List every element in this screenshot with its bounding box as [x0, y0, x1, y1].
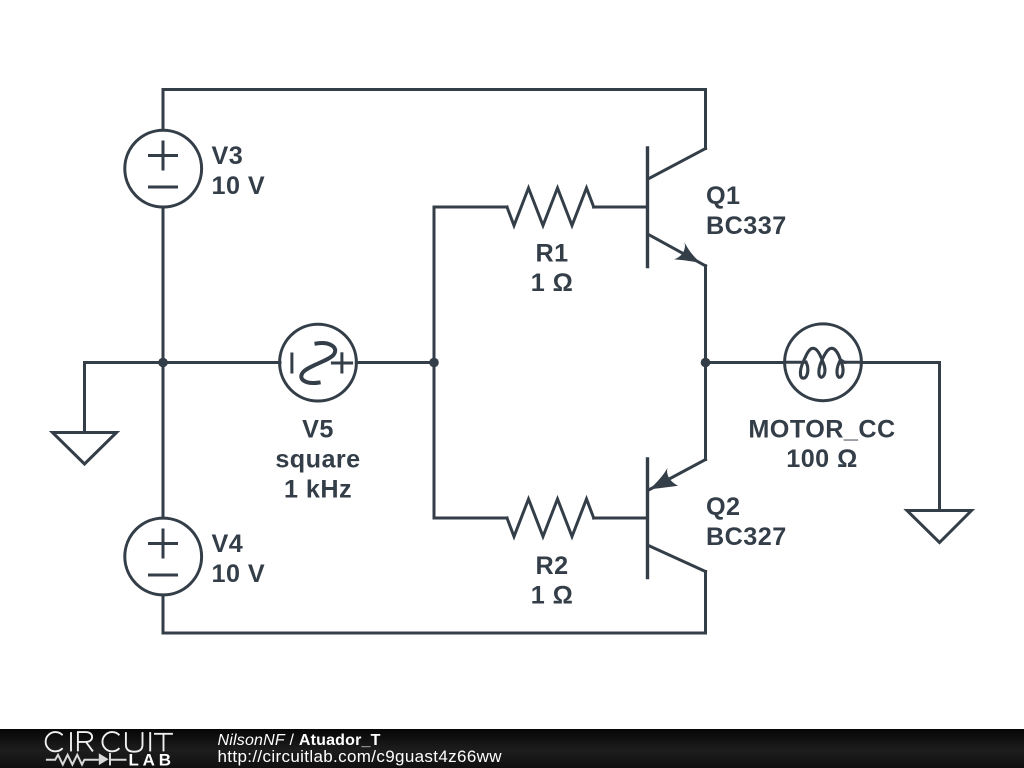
- footer bar: [0, 729, 1024, 768]
- wire V3 bottom to left junction to V4 top: [162, 207, 165, 518]
- wire motor to right ground: [861, 363, 939, 511]
- motor MOTOR_CC: [785, 324, 862, 401]
- voltage source V5 square: [280, 324, 357, 401]
- svg-text:1 kHz: 1 kHz: [284, 475, 352, 503]
- svg-text:square: square: [275, 445, 360, 473]
- ground GND left: [53, 433, 117, 465]
- voltage source V4: [125, 518, 202, 595]
- svg-text:1 Ω: 1 Ω: [531, 581, 574, 609]
- svg-text:10 V: 10 V: [212, 560, 266, 588]
- wire Q1 emitter down to out junction: [704, 266, 707, 363]
- wire out junction down to Q2 emitter: [704, 363, 707, 460]
- wire R1 to Q1 base: [594, 206, 647, 209]
- wire left junction to ground stub: [85, 363, 164, 433]
- CircuitLab logo wordmark CIRCUIT: [46, 732, 173, 752]
- svg-text:V4: V4: [212, 530, 244, 558]
- transistor Q2 BC327 (PNP): [646, 459, 649, 578]
- ground GND right: [907, 511, 972, 543]
- wire V4 bottom to bottom rail: [163, 572, 706, 634]
- svg-text:LAB: LAB: [129, 751, 175, 768]
- transistor Q1 BC337 (NPN): [646, 148, 649, 267]
- svg-text:R2: R2: [535, 552, 568, 580]
- wire mid junction vertical branch: [433, 207, 436, 518]
- svg-text:R1: R1: [535, 240, 568, 268]
- wire V5 to mid junction: [356, 361, 434, 364]
- wire junction to V5: [163, 361, 280, 364]
- resistor R1: [507, 188, 594, 226]
- svg-text:V5: V5: [302, 416, 334, 444]
- svg-text:V3: V3: [212, 142, 244, 170]
- node junction dot mid: [429, 358, 439, 368]
- wire R2 to Q2 base: [594, 517, 647, 520]
- node junction dot out: [701, 358, 711, 368]
- svg-text:BC337: BC337: [706, 212, 787, 240]
- svg-text:10 V: 10 V: [212, 172, 266, 200]
- wire mid branch to R2: [434, 517, 507, 520]
- svg-text:BC327: BC327: [706, 523, 787, 551]
- svg-text:Q2: Q2: [706, 493, 741, 521]
- resistor R2: [507, 499, 594, 537]
- svg-text:1 Ω: 1 Ω: [531, 269, 574, 297]
- CircuitLab logo resistor-diode squiggle: [46, 753, 127, 766]
- wire top rail: [163, 90, 706, 149]
- wire out junction to motor: [706, 361, 785, 364]
- voltage source V3: [125, 130, 202, 207]
- svg-text:http://circuitlab.com/c9guast4: http://circuitlab.com/c9guast4z66ww: [218, 747, 503, 766]
- svg-text:100 Ω: 100 Ω: [786, 445, 857, 473]
- node junction dot left: [158, 358, 168, 368]
- wire mid branch to R1: [434, 206, 507, 209]
- svg-text:Q1: Q1: [706, 182, 741, 210]
- svg-text:MOTOR_CC: MOTOR_CC: [748, 415, 895, 443]
